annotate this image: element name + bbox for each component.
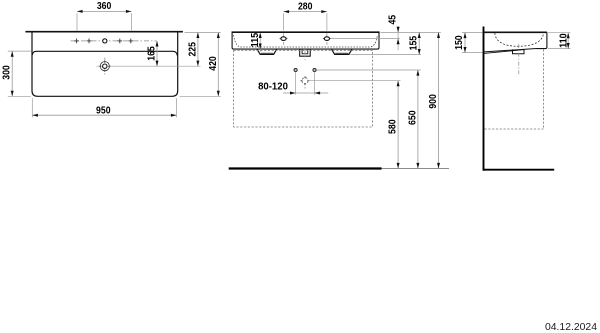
svg-text:110: 110	[558, 33, 569, 48]
svg-text:225: 225	[187, 42, 198, 57]
svg-text:900: 900	[428, 94, 439, 109]
svg-text:420: 420	[208, 56, 219, 71]
svg-text:650: 650	[407, 110, 418, 125]
svg-text:04.12.2024: 04.12.2024	[545, 322, 597, 333]
svg-text:150: 150	[454, 35, 465, 50]
svg-text:280: 280	[298, 1, 313, 12]
svg-text:155: 155	[409, 35, 420, 50]
svg-text:950: 950	[96, 105, 111, 116]
svg-text:115: 115	[250, 32, 261, 47]
svg-text:165: 165	[147, 46, 158, 61]
svg-text:300: 300	[2, 65, 13, 80]
svg-text:45: 45	[387, 14, 398, 24]
svg-text:360: 360	[97, 1, 112, 12]
svg-text:580: 580	[388, 119, 399, 134]
svg-text:80-120: 80-120	[258, 81, 288, 92]
